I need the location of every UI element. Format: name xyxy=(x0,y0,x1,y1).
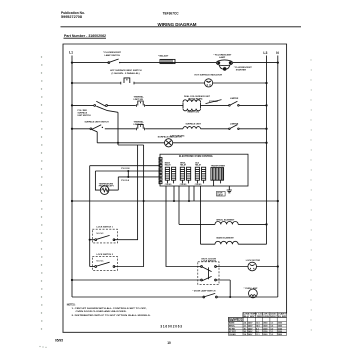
wire rung1 lamp circuit xyxy=(72,62,278,64)
svg-text:10: 10 xyxy=(167,341,171,345)
svg-text:THERMAL: THERMAL xyxy=(134,96,145,99)
svg-text:STARTER: STARTER xyxy=(236,69,247,72)
svg-text:240V: 240V xyxy=(248,333,253,336)
svg-text:TEF367CC: TEF367CC xyxy=(163,12,179,16)
svg-text:CLEAN: CLEAN xyxy=(229,333,236,336)
EOC connector strip P10 xyxy=(159,158,162,184)
EOC title xyxy=(179,155,214,158)
svg-text:05/95: 05/95 xyxy=(55,338,63,342)
diagram border frame xyxy=(63,44,287,332)
svg-text:WIRING DIAGRAM: WIRING DIAGRAM xyxy=(158,22,197,27)
svg-text:BAKE ELEMENT: BAKE ELEMENT xyxy=(217,237,235,240)
svg-text:* DOOR LAMP SWITCH: * DOOR LAMP SWITCH xyxy=(193,289,216,292)
junction N neutral rung xyxy=(277,200,279,202)
footer page number xyxy=(167,341,171,345)
relay K2 broil relay label xyxy=(180,162,187,166)
wire surface indicator line xyxy=(97,142,266,144)
svg-text:RT REAR: RT REAR xyxy=(209,100,218,103)
electronic oven control box U1 xyxy=(160,154,248,186)
svg-text:LOCK SWITCH 2: LOCK SWITCH 2 xyxy=(97,254,114,256)
junction drop S3 xyxy=(117,142,119,144)
svg-text:RT FRT: RT FRT xyxy=(229,331,237,333)
node L1 label xyxy=(69,51,73,55)
svg-text:2850: 2850 xyxy=(263,323,267,325)
switch S7 motor door lock xyxy=(201,266,217,281)
notes text block xyxy=(67,304,151,316)
lock motor label xyxy=(246,260,261,262)
svg-text:1.2: 1.2 xyxy=(271,334,274,336)
wire probe mid xyxy=(95,171,160,190)
svg-text:2000: 2000 xyxy=(263,328,267,330)
wire rt rear tap xyxy=(206,100,222,104)
junction L1 rung2 xyxy=(71,82,73,84)
svg-text:8.3: 8.3 xyxy=(256,328,259,330)
junction L3 broil xyxy=(265,223,267,225)
svg-text:SURFACE UNIT SWITCH: SURFACE UNIT SWITCH xyxy=(85,120,110,123)
svg-text:2300: 2300 xyxy=(263,331,267,333)
motor door lock switch box xyxy=(198,262,219,285)
svg-text:14.6: 14.6 xyxy=(256,325,260,328)
P10 CLN text xyxy=(121,180,129,182)
wire probe bridge xyxy=(127,171,129,177)
svg-text:316002063: 316002063 xyxy=(160,325,182,329)
switch S2 thermal switch xyxy=(121,78,134,85)
relay K2 xyxy=(180,167,190,183)
wire bottom lamp line xyxy=(72,296,278,298)
switch S1 label xyxy=(103,52,122,57)
junction N lock motor xyxy=(277,265,279,267)
svg-text:SURFACE INDICATOR: SURFACE INDICATOR xyxy=(158,136,183,139)
svg-text:LATCH: LATCH xyxy=(217,194,223,197)
node N label xyxy=(276,51,279,55)
svg-text:LOCK SWITCH 1: LOCK SWITCH 1 xyxy=(97,226,114,228)
wire EOC pin A to neutral rung xyxy=(173,186,175,201)
svg-text:COM NO: COM NO xyxy=(195,184,202,186)
svg-text:LIMITER: LIMITER xyxy=(230,98,239,100)
svg-text:ELECTRONIC OVEN CONTROL: ELECTRONIC OVEN CONTROL xyxy=(179,155,214,158)
junction L1 long rung xyxy=(71,279,73,281)
svg-text:OVEN DOOR CLOSED AND UNLOCKED.: OVEN DOOR CLOSED AND UNLOCKED. xyxy=(76,310,127,313)
motor door lock switch label xyxy=(202,258,217,262)
svg-text:COM NO: COM NO xyxy=(165,184,172,186)
left front text xyxy=(170,136,185,138)
thermal limiter rung3 xyxy=(136,101,144,107)
relay K1 pin labels xyxy=(165,184,172,186)
svg-text:3500: 3500 xyxy=(278,326,282,328)
resistor dual coil surface unit label xyxy=(184,95,211,101)
probe receptacle J1 xyxy=(100,186,109,195)
scan artifact left dot column xyxy=(41,56,43,329)
door P1 label box xyxy=(217,191,226,196)
junction lock1 left xyxy=(89,239,91,241)
svg-text:1.1: 1.1 xyxy=(271,331,274,333)
broil element label xyxy=(217,219,235,221)
relay K1 xyxy=(165,167,175,183)
svg-text:COM NO: COM NO xyxy=(180,184,187,186)
svg-text:NOTES:: NOTES: xyxy=(67,304,76,306)
thermal limiter rung4 xyxy=(136,124,144,130)
lock switch 1 box xyxy=(92,229,117,243)
svg-text:2. DISTRIBUTED WITH P TO NOT: 2. DISTRIBUTED WITH P TO NOT OPTION IN A… xyxy=(72,314,151,317)
lock switch 2 box xyxy=(92,257,117,271)
wire EOC pin C to neutral rung xyxy=(193,186,195,201)
svg-text:9.6: 9.6 xyxy=(256,331,259,333)
switch S5 lock switch 1 xyxy=(95,235,115,240)
svg-text:RELAY: RELAY xyxy=(195,164,202,167)
svg-text:240V: 240V xyxy=(248,325,253,328)
transformer T1 xyxy=(211,168,224,186)
svg-text:N: N xyxy=(276,51,279,55)
svg-text:3500: 3500 xyxy=(263,326,267,328)
chassis ground GND xyxy=(227,186,232,193)
svg-text:INNER COIL: INNER COIL xyxy=(188,112,200,114)
door P1 text xyxy=(217,193,223,197)
wire rung3 right rear surface unit xyxy=(72,104,267,106)
svg-text:SURFACE: SURFACE xyxy=(78,111,88,114)
svg-text:5995272708: 5995272708 xyxy=(61,15,82,19)
svg-text:1.0: 1.0 xyxy=(271,328,274,330)
door lamp switch label xyxy=(193,289,216,292)
svg-text:3000: 3000 xyxy=(278,323,282,325)
junction probe mid xyxy=(127,170,129,172)
indicator lamp DS1 hot surface indicator label xyxy=(195,74,223,77)
switch S3 surface unit switch xyxy=(94,101,118,112)
svg-text:Part Number - 316002062: Part Number - 316002062 xyxy=(64,34,106,38)
junction L3 rung2 xyxy=(265,82,267,84)
table header text xyxy=(244,313,287,318)
svg-text:L1: L1 xyxy=(69,51,73,55)
resistor R1 dual coil element xyxy=(183,100,201,111)
transformer T1 label xyxy=(211,164,226,167)
part number underline xyxy=(64,37,107,39)
svg-text:BLK WHT RED ORN GRN YEL BR: BLK WHT RED ORN GRN YEL BR xyxy=(244,316,287,318)
limiter label rung3 xyxy=(230,98,239,100)
limiter label rung4 xyxy=(230,123,239,125)
junction N rung1 xyxy=(277,61,279,63)
svg-text:1.6: 1.6 xyxy=(271,326,274,328)
wire lock switch vertical 1 xyxy=(114,145,138,240)
svg-text:LIMITER: LIMITER xyxy=(230,123,239,125)
table left label text xyxy=(229,318,244,322)
wire rung4 right front surface unit xyxy=(72,128,267,130)
svg-text:(1 SHOWN - 3 PARALLEL): (1 SHOWN - 3 PARALLEL) xyxy=(112,72,140,75)
switch limiter rung3 xyxy=(229,101,240,106)
junction lock vertical neutral rung xyxy=(143,200,145,202)
relay K1 bake relay label xyxy=(165,161,172,166)
svg-text:N.O. N.C.: N.O. N.C. xyxy=(97,260,105,262)
ballast label xyxy=(158,55,169,58)
svg-text:1. CIRCUIT SHOWN WITH ALL CON: 1. CIRCUIT SHOWN WITH ALL CONTROLS SET T… xyxy=(72,307,147,310)
junction L1 rung4 xyxy=(71,128,73,130)
svg-text:N.O. N.C.: N.O. N.C. xyxy=(97,233,105,235)
table grid xyxy=(229,312,287,335)
wire stub to lock verticals xyxy=(118,144,144,146)
scan artifact right dot column xyxy=(310,59,312,330)
svg-text:HOT SURFACE INDIC SWITCH: HOT SURFACE INDIC SWITCH xyxy=(110,69,142,72)
drawing number xyxy=(160,325,182,329)
svg-text:240V: 240V xyxy=(248,327,253,330)
svg-text:RT RR: RT RR xyxy=(229,328,235,330)
lock switch 2 label xyxy=(97,254,114,256)
wire N rail xyxy=(277,56,279,298)
header rule xyxy=(61,26,302,28)
junction L3 rung4 xyxy=(265,128,267,130)
oven lamp label xyxy=(244,287,258,290)
fluorescent starter xyxy=(219,65,229,71)
wire EOC pin to lock box xyxy=(166,186,202,267)
svg-text:LAMP: LAMP xyxy=(219,56,226,59)
svg-text:RELAY: RELAY xyxy=(180,164,187,167)
svg-text:RELAY: RELAY xyxy=(165,164,172,167)
motor M1 lock motor xyxy=(216,262,278,271)
resistor R1 coil labels xyxy=(188,112,200,114)
wire neutral rung xyxy=(72,200,278,202)
junction L3 rung3 xyxy=(265,104,267,106)
thermal limiter label rung4 xyxy=(134,121,145,127)
scan artifact bottom specks xyxy=(39,346,46,348)
junction L1 rung1 xyxy=(71,61,73,63)
switch S1 fluorescent lamp switch xyxy=(108,59,121,63)
lock switch 1 label xyxy=(97,226,114,228)
table left label box xyxy=(229,317,244,321)
svg-text:30: 30 xyxy=(244,328,246,330)
header publication text xyxy=(61,11,85,19)
junction L1 rung3 xyxy=(71,104,73,106)
resistor R2 surface element xyxy=(183,127,201,129)
node L3 label xyxy=(263,51,267,55)
svg-text:240V: 240V xyxy=(248,322,253,325)
svg-text:P10 CLN: P10 CLN xyxy=(121,180,129,182)
resistor R2 surface unit label xyxy=(186,122,202,125)
wire EOC pin broil xyxy=(178,186,180,224)
svg-text:2100: 2100 xyxy=(278,328,282,330)
svg-text:THERMAL: THERMAL xyxy=(134,121,145,124)
svg-text:2.1: 2.1 xyxy=(244,326,247,328)
indicator lamp DS2 xyxy=(165,139,173,147)
wire drop from S4 xyxy=(96,132,98,143)
bake element label xyxy=(217,237,235,240)
switch S3 surface unit switch labels xyxy=(78,110,92,117)
header wiring diagram title xyxy=(158,22,197,27)
svg-text:2300: 2300 xyxy=(278,331,282,333)
fluorescent lamp label xyxy=(214,54,233,59)
svg-text:LAMP SWITCH: LAMP SWITCH xyxy=(105,54,121,57)
resistor R3 broil element xyxy=(179,222,267,225)
svg-text:12.5: 12.5 xyxy=(256,323,260,325)
switch S2 hot surface switch label xyxy=(110,69,142,75)
wire EOC pin B to neutral rung xyxy=(188,186,190,201)
svg-text:1.3: 1.3 xyxy=(271,323,274,325)
thermal limiter label rung3 xyxy=(134,96,145,102)
lock switch 1 terminals text xyxy=(97,233,105,235)
svg-text:P10 CON: P10 CON xyxy=(121,168,130,170)
fluorescent starter label xyxy=(234,67,253,72)
switch S4 surface unit switch xyxy=(90,125,103,132)
svg-text:HOT SURFACE INDICATOR: HOT SURFACE INDICATOR xyxy=(195,74,223,77)
relay K3 pin labels xyxy=(195,184,202,186)
lock switch 2 terminals text xyxy=(97,260,105,262)
junction L3 indicator xyxy=(265,142,267,144)
junction L1 neutral rung xyxy=(71,200,73,202)
wire L3 rail xyxy=(266,56,268,245)
wire lock1 left xyxy=(90,239,95,241)
switch limiter rung4 xyxy=(229,125,240,130)
svg-text:BROIL: BROIL xyxy=(229,326,236,328)
wire probe loop upper xyxy=(90,165,160,167)
svg-text:240V: 240V xyxy=(248,330,253,333)
switch S8 door lamp switch xyxy=(203,293,217,298)
indicator lamp DS2 surface indicator label xyxy=(158,136,183,139)
temperature probe label xyxy=(99,182,115,187)
wire lock2 left xyxy=(90,266,95,268)
relay K2 pin labels xyxy=(180,184,187,186)
svg-text:BROIL ELEMENT: BROIL ELEMENT xyxy=(217,219,235,221)
switch S6 lock switch 2 xyxy=(95,262,115,267)
table row texts xyxy=(229,322,282,336)
lamp DS3 oven lamp xyxy=(249,289,258,298)
svg-text:SURFACE UNIT: SURFACE UNIT xyxy=(186,122,202,125)
resistor R4 bake element xyxy=(201,241,267,244)
rt rear text xyxy=(209,100,218,103)
wire lock switch vertical 2 xyxy=(114,145,144,267)
wire L1 rail xyxy=(71,56,73,298)
junction lamp line xyxy=(229,296,231,298)
wire long L1 rung xyxy=(72,279,202,281)
junction probe lower xyxy=(127,176,129,178)
part number text xyxy=(64,34,106,38)
svg-text:TRANSFORMER: TRANSFORMER xyxy=(211,164,226,167)
wire probe left rail xyxy=(89,166,91,267)
relay K3 DLB relay label xyxy=(195,162,202,166)
svg-text:11.1: 11.1 xyxy=(256,334,260,336)
svg-text:2800: 2800 xyxy=(278,334,282,336)
relay K3 xyxy=(195,167,205,183)
ballast component xyxy=(160,59,175,63)
wire lock switch to lamp line xyxy=(216,280,231,297)
indicator lamp DS1 xyxy=(205,79,213,87)
fluorescent lamp FL1 xyxy=(216,60,232,66)
junction pin A xyxy=(173,200,175,202)
P10 CON text xyxy=(121,168,130,170)
footer date xyxy=(55,338,63,342)
wire probe lower xyxy=(109,177,160,190)
junction pin B xyxy=(188,200,190,202)
wire EOC pin bake xyxy=(200,186,202,244)
wire drop from S3 xyxy=(117,112,119,145)
svg-text:2660: 2660 xyxy=(263,334,267,336)
svg-text:UNIT SWITCH: UNIT SWITCH xyxy=(78,115,92,117)
wire rung2 hot surface indicator xyxy=(72,82,267,84)
svg-text:BAKE: BAKE xyxy=(229,322,235,325)
wire color table header xyxy=(243,312,287,317)
svg-text:* BALAST: * BALAST xyxy=(158,55,169,58)
svg-text:L3: L3 xyxy=(263,51,267,55)
switch S4 surface unit switch label xyxy=(85,120,110,123)
header model number xyxy=(163,12,179,16)
